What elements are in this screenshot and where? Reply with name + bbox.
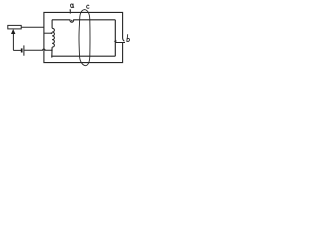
junction dot on jog wire bbox=[51, 32, 53, 34]
terminal tick a bbox=[69, 10, 71, 14]
wire box to outer loop bbox=[21, 26, 44, 28]
label b bbox=[126, 35, 129, 42]
solenoid winding (coil loops) bbox=[52, 20, 55, 58]
label a bbox=[70, 4, 73, 8]
battery long plate bbox=[23, 45, 25, 55]
resistor box (rheostat) bbox=[8, 25, 21, 29]
current arrow on b wire bbox=[114, 40, 117, 43]
terminal wire b bbox=[115, 42, 125, 44]
solenoid right end bbox=[114, 20, 116, 56]
jog wire to coil bbox=[44, 32, 52, 34]
arrowhead bbox=[11, 29, 15, 34]
coil c (large loop) bbox=[79, 10, 90, 66]
tick head dot bbox=[70, 9, 71, 10]
solenoid bottom line bbox=[51, 55, 115, 57]
arrow shaft bbox=[13, 34, 21, 51]
solenoid top line bbox=[52, 20, 115, 22]
junction dot on hop bbox=[71, 20, 73, 22]
outer loop (open at right with hook terminal) bbox=[44, 12, 125, 62]
label c bbox=[87, 5, 89, 8]
battery short plate bbox=[21, 48, 23, 52]
junction dot at coil bottom bbox=[51, 49, 53, 51]
battery wire with hop over outer loop bbox=[24, 49, 52, 50]
